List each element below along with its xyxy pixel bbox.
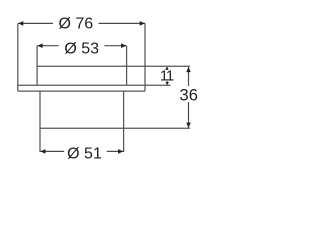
- dimension line Ø53 right segment: [104, 45, 126, 47]
- flange top edge (with extension to 11 dim): [18, 84, 171, 86]
- svg-text:1: 1: [166, 68, 174, 85]
- flange bottom edge: [18, 90, 145, 92]
- svg-text:Ø 76: Ø 76: [58, 16, 93, 33]
- arrow Ø76 left: [18, 21, 23, 26]
- part top edge (with extension to dims): [37, 65, 190, 67]
- arrow 11 top (points up): [165, 67, 169, 70]
- arrow 11 bottom (points down): [165, 82, 169, 85]
- dimension line Ø53 left segment: [37, 45, 58, 47]
- dimension line 11 lower segment: [166, 81, 168, 85]
- svg-text:36: 36: [180, 87, 198, 105]
- dimension line 36 lower segment: [188, 102, 190, 128]
- flange right edge + Ø76 right extension line: [144, 23, 146, 91]
- arrow Ø53 left: [37, 43, 42, 48]
- body left edge + Ø51 left extension line: [39, 91, 41, 152]
- flange left edge + Ø76 left extension line: [17, 23, 19, 91]
- arrow Ø51 right: [118, 149, 123, 154]
- svg-text:Ø 51: Ø 51: [67, 146, 102, 163]
- arrow Ø51 left: [40, 149, 45, 154]
- dimension line Ø51 right segment: [107, 150, 124, 152]
- arrow Ø53 right: [121, 43, 126, 48]
- dimension line 11 upper segment: [166, 67, 168, 70]
- arrow 36 bottom (points down): [186, 123, 191, 128]
- body right edge + Ø51 right extension line: [123, 91, 125, 152]
- boss left edge + Ø53 left extension line: [36, 46, 38, 85]
- part bottom edge (with extension to 36 dim): [40, 127, 190, 129]
- dimension line Ø76 right segment: [99, 22, 145, 24]
- boss right edge + Ø53 right extension line: [126, 46, 128, 85]
- arrow 36 top (points up): [186, 67, 191, 72]
- dimension line 36 upper segment: [188, 67, 190, 86]
- svg-text:Ø 53: Ø 53: [64, 41, 99, 58]
- dimension line Ø51 left segment: [40, 150, 64, 152]
- arrow Ø76 right: [140, 21, 145, 26]
- dimension line Ø76 left segment: [18, 22, 53, 24]
